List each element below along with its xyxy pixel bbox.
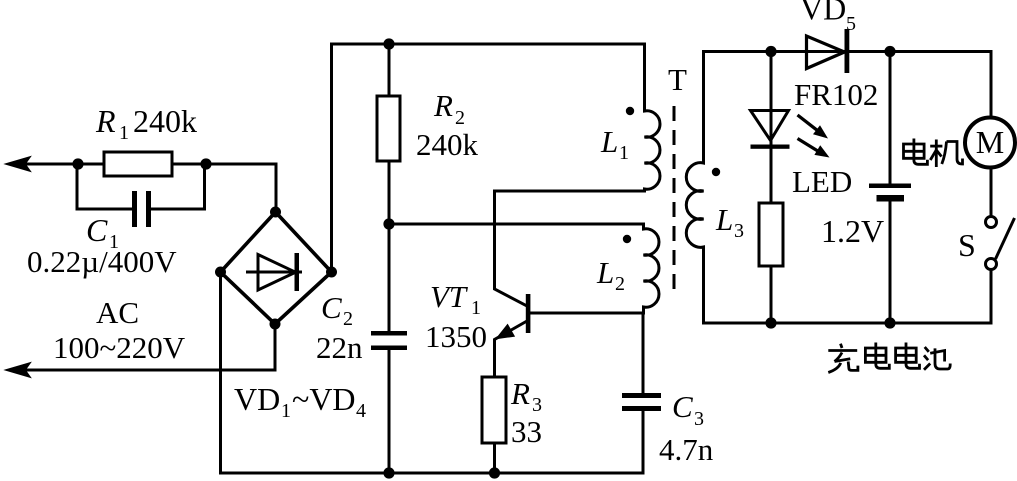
svg-text:R: R [95,103,116,139]
wire R2 column [388,44,391,224]
inductor L1 [645,44,660,191]
wire battery column bottom [889,202,892,324]
node AC-R1 left [72,158,83,169]
node bridge right [326,267,337,278]
svg-text:3: 3 [532,394,542,416]
wire bridge right vertex to top rail [330,44,333,272]
transistor Q1 emitter arrow [498,325,514,338]
label chongdiandianchi char dian 2 [896,343,920,369]
svg-text:3: 3 [694,408,704,430]
wire bridge left vertex to bottom rail [219,272,222,473]
wire motor to switch [990,168,993,217]
transistor Q1 emitter [495,321,528,377]
wire right top rail [704,50,992,53]
node right rail battery top [884,46,895,57]
node bridge bottom [270,319,281,330]
svg-text:22n: 22n [316,330,363,365]
svg-text:VT: VT [430,279,469,314]
capacitor C3 [622,393,661,411]
resistor R2 [377,96,400,161]
svg-text:~VD: ~VD [292,381,356,417]
inductor L2 [644,224,659,313]
svg-text:1: 1 [281,400,291,422]
svg-text:1: 1 [471,297,481,319]
node bottom rail R3 [489,467,500,478]
resistor R1 [104,152,172,176]
svg-text:33: 33 [511,414,542,449]
svg-text:4.7n: 4.7n [659,432,714,467]
switch S terminal bottom [986,259,997,270]
svg-text:C: C [672,389,693,424]
svg-text:240k: 240k [133,103,197,139]
transistor Q1 base bar [526,294,531,333]
svg-text:2: 2 [343,308,353,330]
bridge rectifier VD1-VD4 diamond [221,212,332,324]
wire C2 column lower [388,348,391,473]
node right rail LED top [765,46,776,57]
svg-text:R: R [510,376,530,411]
svg-text:1: 1 [619,142,629,164]
label dianji (motor) char dian [904,139,928,165]
AC arrow top [6,157,30,171]
phase dot L2 [623,235,631,243]
wire LED column top [770,52,773,145]
wire C1 branch left [77,164,133,209]
svg-text:5: 5 [846,13,856,35]
wire node B to L2 [389,223,644,226]
wire battery column top [889,52,892,184]
svg-text:L: L [715,202,733,237]
svg-text:LED: LED [792,164,852,199]
svg-text:3: 3 [734,220,744,242]
switch S lever [996,218,1015,259]
LED arrow 1 [798,115,829,139]
phase dot L1 [626,107,634,115]
wire C1 branch right [150,164,205,209]
label chongdiandianchi char dian 1 [865,343,889,369]
svg-text:240k: 240k [416,127,479,162]
svg-text:AC: AC [96,295,139,330]
svg-text:C: C [86,212,108,248]
phase dot L3 [712,168,720,176]
svg-text:L: L [600,124,618,159]
wire C3 column lower [642,411,645,473]
transistor Q1 base lead [530,312,644,315]
svg-text:2: 2 [455,107,465,129]
node bottom rail C2 [383,467,394,478]
svg-text:T: T [668,62,687,97]
wire LED to resistor [770,149,773,204]
motor M circle [965,118,1015,168]
AC arrow bottom [6,363,30,377]
node bridge left [215,267,226,278]
wire C2 column upper [388,224,391,333]
wire bridge bottom vertex down [274,324,277,370]
wire bottom rail [221,472,644,475]
inductor L3 [686,52,703,324]
svg-text:1: 1 [119,122,129,144]
svg-text:M: M [976,124,1004,160]
node bridge top [270,207,281,218]
wire C3 column upper [642,313,645,393]
LED diode symbol [751,111,790,149]
node AC-R1 right [200,158,211,169]
label chongdiandianchi char chong [828,344,858,373]
node B base network [383,218,394,229]
wire AC top line [10,163,276,166]
wire LED resistor to rail [770,266,773,323]
svg-text:R: R [433,88,453,123]
diode VD5 [807,29,850,73]
LED arrow 2 [798,139,830,158]
wire bridge top vertical [275,164,278,212]
svg-text:L: L [596,255,614,290]
svg-text:VD: VD [234,381,280,417]
wire switch to rail [990,270,993,324]
resistor R3 [482,377,506,443]
svg-text:1.2V: 1.2V [821,213,884,249]
svg-text:1350: 1350 [425,319,487,354]
svg-text:FR102: FR102 [794,77,878,112]
capacitor C2 [371,331,407,350]
node right rail LED bottom [765,317,776,328]
node top rail R2 [383,38,394,49]
capacitor C1 [132,191,151,227]
LED series resistor [759,203,783,266]
transistor Q1 collector [495,191,528,306]
bridge inner diode [246,253,302,291]
svg-text:VD: VD [800,0,846,27]
svg-text:S: S [958,227,976,263]
label dianji (motor) char ji [930,140,962,168]
svg-text:2: 2 [615,273,625,295]
battery 1.2V [869,184,911,202]
node right rail battery bottom [884,317,895,328]
svg-text:0.22µ/400V: 0.22µ/400V [27,244,177,279]
svg-text:100~220V: 100~220V [53,330,186,365]
switch S terminal top [986,217,997,228]
wire motor column top [990,52,993,118]
node dots [72,38,895,478]
wire AC bottom line [10,369,275,372]
wire L1 bottom to collector [495,190,645,193]
wire top rail [332,43,645,46]
svg-text:C: C [321,290,342,325]
label chongdiandianchi char chi [924,347,950,370]
transformer core dashed line [673,106,676,298]
wire R3 column [493,377,496,473]
svg-text:4: 4 [356,400,366,422]
wire right bottom rail [704,322,992,325]
